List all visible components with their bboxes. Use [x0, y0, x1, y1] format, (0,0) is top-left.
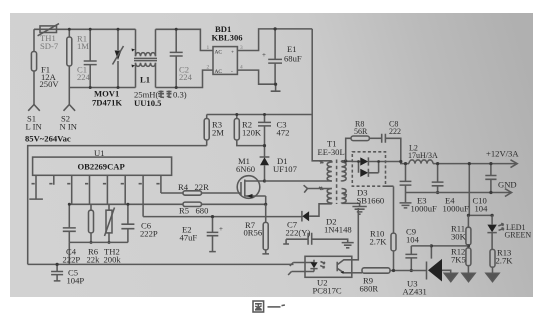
- capacitor C1: [84, 29, 97, 87]
- label TH2 200k: [104, 247, 122, 265]
- label E3 1000uF: [411, 196, 437, 214]
- label LED1 GREEN: [505, 223, 532, 240]
- U1 pin 1: [29, 175, 43, 199]
- svg-text:+: +: [231, 50, 234, 56]
- svg-text:U1: U1: [94, 148, 105, 158]
- terminal S1: [28, 105, 40, 111]
- node: drain: [263, 179, 266, 182]
- label R7 0R56: [244, 220, 263, 238]
- ground under E3: [400, 203, 412, 208]
- label R9 680R: [360, 276, 379, 294]
- label U3 AZ431: [403, 279, 427, 297]
- svg-text:GREEN: GREEN: [505, 231, 532, 240]
- node: source to sense: [264, 196, 267, 206]
- svg-text:120K: 120K: [242, 128, 262, 138]
- LED LED1: [487, 215, 496, 249]
- label R3 2M: [212, 120, 224, 138]
- ground under U3: [444, 273, 457, 281]
- resistor R11: [466, 215, 471, 248]
- svg-text:22k: 22k: [87, 254, 101, 264]
- svg-text:222(Y): 222(Y): [286, 228, 311, 238]
- fuse F1: [31, 29, 36, 104]
- ground under R12: [462, 273, 475, 281]
- label S1 L IN: [26, 114, 43, 132]
- wire: startup line from R3 to left rail: [28, 146, 207, 265]
- thermistor TH1: [38, 24, 59, 36]
- svg-text:224: 224: [179, 72, 193, 82]
- capacitor E1: [262, 29, 282, 84]
- ground: secondary hatched: [352, 207, 366, 215]
- svg-text:PC817C: PC817C: [313, 286, 342, 296]
- svg-text:AC: AC: [215, 50, 223, 56]
- svg-text:680R: 680R: [360, 284, 379, 294]
- svg-text:2: 2: [207, 65, 210, 71]
- svg-text:472: 472: [277, 128, 290, 138]
- svg-text:L IN: L IN: [26, 122, 43, 132]
- label R12 7K5: [451, 247, 466, 265]
- resistor R12: [466, 244, 471, 273]
- label TH1 SD-7: [40, 33, 59, 51]
- svg-text:1N4148: 1N4148: [324, 225, 352, 235]
- common-mode choke L1: [132, 29, 158, 87]
- inductor L2: [409, 160, 433, 164]
- wire: L input top rail: [34, 29, 213, 50]
- wire: primary top feed: [312, 115, 332, 161]
- label U1: [94, 148, 105, 158]
- wire: aux bottom to D2: [319, 204, 332, 211]
- svg-text:1M: 1M: [77, 41, 89, 51]
- capacitor E2: [207, 215, 223, 252]
- svg-text:7D471K: 7D471K: [92, 98, 122, 108]
- svg-text:6N60: 6N60: [236, 164, 255, 174]
- label GND: [498, 180, 517, 190]
- svg-text:22R: 22R: [195, 182, 210, 192]
- svg-text:1000uF: 1000uF: [411, 203, 437, 213]
- label BD1 KBL306: [212, 24, 244, 43]
- wire: U3 cathode line: [391, 270, 427, 272]
- capacitor C5: [51, 263, 63, 281]
- svg-text:-: -: [231, 69, 233, 75]
- label L1 25mH UU10.5: [134, 75, 187, 109]
- wire: U2 emitter to R9: [352, 272, 362, 274]
- caption: figure title 图一: [253, 301, 285, 312]
- ground under C7: [342, 243, 354, 248]
- label 85V~264Vac: [25, 134, 71, 144]
- svg-text:7K5: 7K5: [451, 254, 466, 264]
- diode D2 1N4148: [302, 211, 319, 222]
- svg-text:68uF: 68uF: [284, 54, 302, 64]
- label U2 PC817C: [313, 278, 342, 296]
- U2 internal transistor: [337, 260, 352, 274]
- wire: output line to L2: [399, 160, 409, 164]
- svg-text:AZ431: AZ431: [403, 287, 427, 297]
- optocoupler U2 PC817C: [305, 256, 352, 277]
- svg-text:KBL306: KBL306: [212, 33, 244, 43]
- capacitor E3: [400, 162, 412, 202]
- resistor R9: [362, 268, 391, 273]
- svg-text:47uF: 47uF: [180, 233, 198, 243]
- wire: DC bus down to primary: [311, 29, 313, 115]
- svg-text:104: 104: [475, 203, 489, 213]
- label C9 104: [406, 227, 420, 245]
- svg-text:1: 1: [207, 45, 210, 51]
- capacitor C2: [170, 29, 183, 87]
- T1 phase dots: [319, 160, 347, 195]
- svg-text:EE-30L: EE-30L: [318, 147, 345, 157]
- wire: VDD line pin7 to D2: [143, 216, 302, 218]
- U1 pin 6: [121, 175, 126, 204]
- resistor R6: [89, 204, 94, 244]
- svg-text:222P: 222P: [63, 254, 81, 264]
- resistor R8: [351, 136, 382, 141]
- thermistor TH2: [105, 204, 115, 244]
- label C2 224: [179, 65, 193, 83]
- svg-text:SD-7: SD-7: [40, 41, 59, 51]
- wire: BD1 minus output: [237, 70, 275, 84]
- svg-text:200k: 200k: [104, 254, 122, 264]
- label MOV1 7D471K: [92, 89, 122, 108]
- wire: clamp top rail: [207, 114, 313, 116]
- svg-text:85V~264Vac: 85V~264Vac: [25, 134, 71, 144]
- svg-text:104P: 104P: [67, 276, 85, 286]
- resistor R13: [490, 249, 495, 273]
- ground under R13: [486, 273, 499, 281]
- wire: secondary bottom to ground: [342, 203, 360, 206]
- snubber: wire up from secondary: [346, 138, 351, 161]
- svg-text:680: 680: [196, 206, 209, 216]
- svg-text:UU10.5: UU10.5: [134, 98, 161, 108]
- wire: U2 left leads: [288, 263, 305, 276]
- resistor R1: [67, 29, 72, 87]
- label R2 120K: [242, 120, 262, 138]
- label E1 68uF: [284, 44, 302, 64]
- label D2 1N4148: [324, 217, 352, 235]
- label C1 224: [77, 65, 91, 83]
- diode D1 UF107: [260, 144, 270, 181]
- node: E1 bottom stub: [271, 27, 281, 91]
- label OB2269CAP: [78, 162, 125, 172]
- op-amp U1 OB2269CAP box: [33, 157, 172, 175]
- svg-text:56R: 56R: [354, 127, 368, 136]
- svg-text:OB2269CAP: OB2269CAP: [78, 162, 125, 172]
- U1 pin 3: [67, 175, 72, 204]
- wire: sense line through R5: [69, 203, 265, 205]
- svg-text:+: +: [219, 225, 223, 233]
- capacitor C6: [121, 203, 134, 243]
- rectifier D3 dashed box: [352, 152, 385, 186]
- capacitor E4: [432, 162, 444, 194]
- resistor R2: [234, 113, 264, 146]
- label S2 N IN: [60, 114, 78, 132]
- svg-text:SB1660: SB1660: [357, 195, 385, 205]
- label C3 472: [277, 120, 290, 138]
- rectifier D3 diodes: [352, 157, 401, 177]
- wire: primary ground rail: [28, 263, 294, 265]
- svg-text:+12V/3A: +12V/3A: [486, 149, 519, 159]
- label R1 1M: [77, 34, 89, 52]
- varistor MOV1: [113, 29, 124, 87]
- wire: U2 collector to secondary ground: [352, 208, 359, 260]
- bridge rectifier BD1: [213, 47, 237, 75]
- wire: R11-LED1 node line: [467, 214, 494, 217]
- capacitor C7: [283, 233, 348, 245]
- resistor R10: [391, 233, 396, 272]
- svg-text:2M: 2M: [212, 128, 224, 138]
- transformer T1 secondary winding lower: [342, 189, 347, 204]
- arrow: GND: [505, 189, 512, 197]
- transformer T1 primary winding: [327, 161, 332, 181]
- label R13 2.7K: [496, 248, 514, 266]
- svg-text:+: +: [262, 51, 266, 59]
- svg-text:R5: R5: [179, 206, 189, 216]
- resistor R3: [204, 115, 209, 146]
- capacitor C10: [485, 162, 496, 194]
- svg-text:224: 224: [77, 72, 91, 82]
- label C8 222: [389, 120, 401, 137]
- wire: secondary top node: [342, 159, 353, 162]
- U1 pin 2: [49, 175, 54, 185]
- resistor R4: [183, 191, 202, 195]
- capacitor C9: [405, 246, 431, 272]
- shunt regulator U3 AZ431: [427, 259, 451, 282]
- wire: +12V output line: [433, 163, 517, 165]
- svg-text:UF107: UF107: [273, 164, 298, 174]
- wire: gate line through R4: [161, 192, 238, 194]
- svg-text:222: 222: [389, 127, 401, 136]
- svg-text:0R56: 0R56: [244, 228, 263, 238]
- svg-text:1000uF: 1000uF: [443, 203, 469, 213]
- U1 pin 4: [85, 175, 90, 204]
- wire: C4-R6-TH2-C6 bottom bus: [69, 242, 128, 264]
- label E2 47uF: [180, 225, 198, 243]
- wire: R10 feed from rectifier: [386, 186, 394, 233]
- wire: aux winding top stub: [304, 185, 332, 192]
- wire: N input bottom rail: [69, 70, 213, 87]
- terminal S2: [64, 88, 76, 111]
- svg-text:0.3): 0.3): [173, 90, 187, 100]
- arrow: +12V/3A: [511, 160, 518, 168]
- label R10 2.7K: [370, 229, 388, 247]
- wire: secondary ground rail: [406, 192, 512, 194]
- BD1 pin marks: [207, 45, 244, 75]
- svg-text:17uH/3A: 17uH/3A: [408, 151, 438, 160]
- label C6 222P: [140, 221, 158, 239]
- svg-text:L1: L1: [140, 75, 150, 85]
- label R4 22R: [178, 182, 209, 192]
- svg-text:2.7K: 2.7K: [496, 255, 514, 265]
- capacitor C8: [382, 134, 401, 162]
- svg-text:E1: E1: [287, 44, 297, 54]
- wire: BD1 plus output to top rail: [237, 29, 312, 51]
- svg-text:AC: AC: [215, 69, 223, 75]
- svg-text:R4: R4: [178, 182, 189, 192]
- label M1 6N60: [236, 156, 255, 174]
- junction dots input: [68, 28, 120, 89]
- resistor R7: [262, 204, 269, 254]
- wire: divider feed: [468, 162, 471, 215]
- transformer T1 secondary winding upper: [342, 161, 347, 182]
- transformer T1 core: [336, 160, 338, 205]
- wire: ref line R11/R12 junction to U3: [430, 244, 469, 258]
- U1 pin 7: [139, 175, 144, 216]
- svg-text:N IN: N IN: [60, 122, 78, 132]
- svg-text:250V: 250V: [40, 79, 60, 89]
- svg-text:2.7K: 2.7K: [370, 237, 388, 247]
- label L2 17uH/3A: [408, 144, 438, 160]
- label D1 UF107: [273, 156, 298, 174]
- svg-text:GND: GND: [498, 180, 517, 190]
- label R8 56R: [354, 120, 368, 137]
- svg-text:222P: 222P: [140, 229, 158, 239]
- label T1 EE-30L: [318, 139, 345, 158]
- svg-text:104: 104: [406, 235, 420, 245]
- U2 internal LED: [305, 260, 325, 272]
- label R5 680: [179, 206, 208, 216]
- resistor R5: [183, 202, 202, 206]
- capacitor C4: [63, 203, 76, 243]
- transistor M1 6N60: [237, 176, 266, 199]
- U1 pin 5: [103, 175, 108, 204]
- label C4 222P: [63, 247, 81, 265]
- label C10 104: [473, 196, 489, 214]
- LED1 emission arrows: [498, 223, 504, 230]
- label E4 1000uF: [443, 196, 469, 214]
- label R11 30K: [451, 224, 467, 242]
- capacitor C3: [258, 113, 271, 146]
- label C5 104P: [67, 268, 85, 286]
- label +12V/3A: [486, 149, 519, 159]
- label C7 222(Y): [286, 220, 311, 238]
- transformer T1 aux winding: [327, 189, 332, 204]
- label F1 12A 250V: [40, 65, 60, 90]
- U1 pin 8: [156, 175, 161, 193]
- label R6 22k: [87, 247, 101, 265]
- label D3 SB1660: [357, 188, 385, 206]
- svg-text:30K: 30K: [451, 232, 467, 242]
- wire: drain to primary winding: [265, 180, 332, 182]
